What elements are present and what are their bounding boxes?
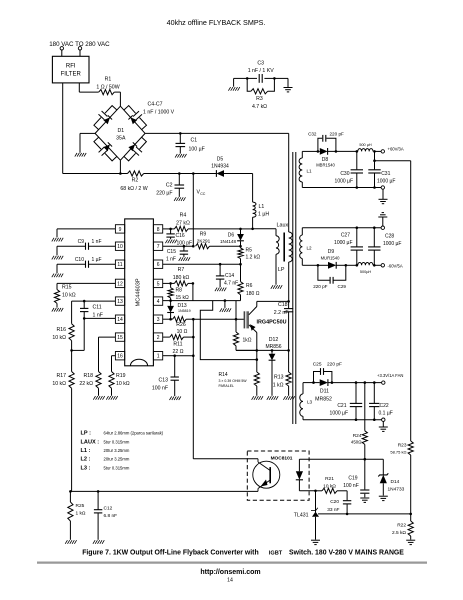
svg-text:C21: C21 — [337, 403, 346, 409]
ground R18 — [93, 396, 104, 400]
label C9 — [78, 239, 102, 245]
AC input terminal 1 — [60, 47, 63, 50]
ground C3 left — [228, 87, 239, 91]
junction pin4 ground — [224, 299, 227, 302]
svg-text:R26: R26 — [176, 322, 186, 328]
svg-text:http://onsemi.com: http://onsemi.com — [200, 569, 260, 576]
svg-text:27 kΩ: 27 kΩ — [176, 221, 190, 227]
diode D12 — [269, 350, 276, 395]
AC input terminal 2 — [78, 47, 81, 50]
wire R7 junction down to pin4 row — [192, 283, 194, 300]
label C27 — [334, 233, 352, 247]
label LP — [278, 267, 285, 273]
svg-text:500 µH: 500 µH — [359, 143, 372, 147]
junction C11 top — [83, 300, 86, 303]
terminal -60V return — [381, 226, 384, 229]
wire bridge bottom to rail — [119, 160, 121, 173]
svg-text:10 kΩ: 10 kΩ — [62, 293, 76, 299]
label R13 — [273, 375, 284, 389]
wire +3.3V top row right — [356, 382, 381, 384]
label R6 — [246, 283, 260, 297]
figure caption — [82, 550, 404, 557]
wire C3 left junction to cap — [247, 77, 257, 79]
label R18 — [79, 373, 93, 387]
ground C10 — [52, 274, 63, 278]
svg-text:1 µH: 1 µH — [258, 212, 269, 218]
junction R5 bottom — [239, 263, 242, 266]
svg-text:10 kΩ: 10 kΩ — [323, 483, 336, 489]
wire +3.3V top row — [303, 382, 314, 384]
svg-text:C28: C28 — [385, 234, 394, 240]
svg-text:+60V/3A: +60V/3A — [388, 147, 404, 152]
opto LED — [296, 459, 316, 491]
svg-text:C2: C2 — [166, 183, 173, 189]
svg-text:1.2 kΩ: 1.2 kΩ — [246, 255, 261, 261]
wire pin 5 to R7 — [163, 282, 175, 284]
svg-text:1: 1 — [157, 354, 160, 360]
svg-text:C4-C7: C4-C7 — [148, 102, 163, 108]
svg-text:D1: D1 — [117, 128, 124, 134]
wire C10 to ground — [57, 264, 85, 273]
svg-text:-60V/5A: -60V/5A — [388, 263, 403, 268]
capacitor C2 — [175, 174, 185, 197]
resistor R22 — [408, 514, 413, 540]
svg-text:TL431: TL431 — [294, 512, 309, 518]
junction emitter 359 — [255, 358, 258, 361]
wire demag jog — [200, 301, 256, 360]
svg-text:2.5 kΩ: 2.5 kΩ — [392, 530, 406, 536]
junction C30 top — [356, 150, 359, 153]
junction R11 right — [192, 336, 195, 339]
ground pin 4 row — [220, 308, 231, 312]
svg-text:L3 :: L3 : — [81, 465, 91, 471]
junction C13 top — [173, 354, 176, 357]
wire Vcc junction to D5 — [193, 173, 216, 175]
svg-text:+3.3V/1A FAN: +3.3V/1A FAN — [377, 373, 403, 378]
junction C27 top — [356, 226, 359, 229]
svg-text:8: 8 — [157, 227, 160, 233]
capacitor C15 — [180, 246, 188, 257]
wire D9 to C27 bottom — [346, 264, 357, 266]
ground bridge left — [75, 153, 86, 157]
label D5 1N4934 — [211, 157, 229, 170]
junction D6 top — [239, 228, 242, 231]
capacitor C29 snubber — [318, 265, 346, 283]
label C1 — [189, 138, 205, 153]
label L1 secondary — [307, 169, 313, 174]
svg-text:C11: C11 — [93, 305, 102, 311]
label 500uH -60V — [360, 270, 372, 274]
label C13 — [152, 378, 168, 392]
inductor 500uH -60V — [358, 263, 373, 266]
svg-text:100 nF: 100 nF — [343, 483, 359, 489]
svg-text:4.7 kΩ: 4.7 kΩ — [252, 104, 267, 110]
label L3 secondary — [307, 400, 313, 405]
label R5 — [246, 248, 261, 261]
svg-text:R25: R25 — [76, 503, 85, 509]
svg-text:100 µF: 100 µF — [189, 147, 205, 153]
svg-text:D6: D6 — [228, 232, 235, 238]
svg-text:1 kΩ: 1 kΩ — [273, 383, 284, 389]
svg-text:C25: C25 — [313, 362, 322, 368]
svg-text:R21: R21 — [325, 476, 334, 482]
svg-text:D11: D11 — [320, 389, 329, 395]
label D13 — [178, 303, 191, 313]
junction C31 bottom — [373, 186, 376, 189]
label 500uH +60V — [359, 143, 372, 147]
wire pin 12 to R15 — [57, 283, 115, 289]
svg-text:10 kΩ: 10 kΩ — [52, 335, 66, 341]
winding L2 secondary — [300, 228, 303, 266]
label 1k gate resistor — [243, 338, 252, 344]
svg-text:22 Ω: 22 Ω — [172, 349, 183, 355]
svg-text:20tur 3.25mm: 20tur 3.25mm — [104, 448, 130, 453]
wire pin 13 left — [72, 301, 116, 324]
svg-text:1 kΩ: 1 kΩ — [76, 511, 86, 517]
ground -60V top — [378, 213, 387, 226]
AC input label 180 VAC TO 280 VAC — [49, 41, 110, 48]
wire pin 6 row — [163, 263, 241, 265]
junction C21 bottom — [355, 418, 358, 421]
wire TL431 ref row — [318, 513, 411, 515]
svg-text:L2: L2 — [307, 246, 313, 251]
label C4-C7 — [143, 102, 175, 116]
svg-text:R16: R16 — [56, 327, 66, 333]
svg-text:220 pF: 220 pF — [327, 362, 342, 368]
svg-text:R3: R3 — [256, 96, 263, 102]
inductor 500uH +60V — [358, 149, 373, 152]
svg-text:D5: D5 — [217, 157, 224, 163]
capacitor C11 — [80, 301, 88, 318]
svg-text:R23: R23 — [398, 443, 407, 449]
svg-text:64tur 2.86mm (2parca sarilarak: 64tur 2.86mm (2parca sarilarak) — [104, 431, 164, 436]
label R2 — [120, 178, 147, 193]
junction L1 bottom — [251, 228, 254, 231]
resistor R10 gate-emitter 1k — [233, 319, 256, 350]
svg-text:1 nF: 1 nF — [93, 313, 103, 319]
label C10 — [75, 257, 102, 263]
svg-text:C29: C29 — [338, 284, 347, 289]
junction R25 — [69, 490, 72, 493]
capacitor C32 snubber — [318, 135, 336, 152]
label R8 — [176, 288, 189, 302]
svg-text:180 kΩ: 180 kΩ — [173, 275, 190, 281]
svg-text:35A: 35A — [116, 136, 126, 142]
wire bridge right vertex DC rail — [145, 132, 289, 134]
op-amp U1 MC44603P controller IC — [115, 219, 162, 366]
svg-text:R17: R17 — [56, 373, 66, 379]
resistor R6 — [238, 264, 243, 300]
terminal +60V — [381, 150, 384, 153]
wire -60V bottom row left — [302, 264, 318, 266]
svg-text:2: 2 — [157, 335, 160, 341]
svg-text:40khz offline FLYBACK SMPS.: 40khz offline FLYBACK SMPS. — [167, 18, 266, 27]
svg-text:MR852: MR852 — [315, 397, 332, 403]
svg-text:R14: R14 — [219, 372, 228, 378]
label C2 — [156, 183, 172, 197]
ground R14 — [252, 396, 263, 400]
capacitor C1 — [176, 133, 186, 153]
wire +3.3V bottom row — [303, 419, 382, 421]
footer separator — [37, 561, 427, 563]
svg-text:10 Ω: 10 Ω — [177, 329, 188, 335]
wire pin2 link vertical — [192, 319, 194, 356]
svg-text:L2 :: L2 : — [81, 457, 91, 463]
label D11 — [315, 389, 332, 403]
junction C29 left — [317, 264, 320, 267]
resistor R4 — [174, 226, 240, 231]
label R9 — [197, 232, 211, 244]
svg-text:C12: C12 — [104, 506, 113, 512]
svg-text:1000 µF: 1000 µF — [383, 241, 401, 247]
svg-text:6: 6 — [157, 262, 160, 268]
resistor R25 — [68, 491, 73, 539]
transformer core lines — [293, 152, 296, 424]
ground TL431 — [311, 540, 320, 544]
svg-text:C16: C16 — [176, 233, 185, 239]
svg-text:16: 16 — [117, 354, 123, 360]
svg-text:6.8 nF: 6.8 nF — [104, 513, 118, 519]
junction C32 right — [335, 150, 338, 153]
wire pin 11 to C10 — [89, 263, 116, 265]
wire pin1 node down to opto collector — [193, 356, 258, 459]
junction R16 bottom — [70, 349, 73, 352]
wire pin 8 to R4 — [163, 228, 175, 230]
capacitor C18 — [284, 301, 293, 350]
wire +60V top row — [302, 150, 318, 152]
svg-text:L1: L1 — [259, 204, 265, 210]
svg-text:1N4148: 1N4148 — [220, 239, 237, 244]
ground R25 — [65, 540, 76, 544]
capacitor C12 — [94, 491, 102, 539]
wire pin 3 row — [163, 318, 173, 320]
label R23 — [390, 443, 406, 455]
resistor R2 — [128, 171, 180, 176]
junction R22 top — [409, 513, 412, 516]
wire pin 2 row — [163, 336, 170, 338]
resistor R21 — [316, 488, 348, 493]
wire pin14 node down — [72, 318, 85, 350]
core bar primary — [283, 233, 285, 262]
label R7 — [173, 267, 190, 281]
label L2 secondary — [307, 246, 313, 251]
label C18 — [274, 302, 289, 316]
svg-text:5tur 0.315mm: 5tur 0.315mm — [104, 439, 130, 444]
wire opto emitter to rail — [70, 490, 258, 492]
svg-text:CC: CC — [200, 192, 206, 196]
svg-text:1 µF: 1 µF — [92, 257, 102, 263]
svg-text:1000 µF: 1000 µF — [334, 240, 352, 246]
label -60V/5A — [388, 263, 403, 268]
resistor R16 — [69, 324, 74, 351]
label C29 — [313, 284, 346, 289]
junction C25 left — [312, 381, 315, 384]
svg-text:R4: R4 — [180, 213, 187, 219]
label TL431 — [294, 512, 309, 518]
junction C28 bottom — [373, 264, 376, 267]
svg-text:13: 13 — [117, 299, 123, 305]
wire C3 cap to right junction — [264, 77, 274, 79]
winding LP — [289, 232, 293, 301]
svg-text:C19: C19 — [348, 476, 357, 482]
wire pin3 to gate — [193, 318, 244, 320]
svg-text:7: 7 — [157, 244, 160, 250]
label R11 — [172, 342, 183, 356]
bridge rectifier D1 — [94, 106, 147, 161]
diode D5 — [216, 170, 224, 177]
wire Vcc rail down to R9 — [192, 174, 194, 247]
resistor R23 — [408, 441, 413, 514]
svg-text:1N4733: 1N4733 — [388, 487, 405, 493]
svg-text:C14: C14 — [225, 273, 234, 279]
capacitor C9 — [86, 243, 89, 250]
capacitor C20 — [343, 491, 351, 514]
ground C14 — [215, 288, 226, 292]
svg-text:1000 µF: 1000 µF — [330, 411, 348, 417]
ground D14 — [379, 496, 388, 500]
label C32 — [308, 131, 344, 136]
junction Vcc pin7 — [192, 245, 195, 248]
svg-text:R18: R18 — [83, 373, 93, 379]
label C3 — [248, 61, 274, 75]
junction Vcc — [192, 172, 195, 175]
label C25 — [313, 362, 342, 368]
winding L1 secondary — [299, 151, 302, 187]
optocoupler MOC8101 box — [247, 451, 309, 500]
svg-text:2K291: 2K291 — [197, 239, 211, 244]
svg-text:R24: R24 — [353, 433, 362, 439]
svg-text:C27: C27 — [341, 233, 350, 239]
junction gate resistor node — [235, 318, 238, 321]
wire pin 10 to C9 — [89, 245, 116, 247]
svg-text:22 kΩ: 22 kΩ — [79, 381, 93, 387]
svg-text:33 nF: 33 nF — [327, 507, 339, 513]
junction R24 top — [364, 381, 367, 384]
label C28 — [383, 234, 401, 248]
junction C20 bottom — [346, 513, 349, 516]
svg-text:Figure 7. 1KW Output Off-Lin: Figure 7. 1KW Output Off-Line Flyback Co… — [82, 550, 259, 557]
svg-text:1kΩ: 1kΩ — [243, 338, 252, 344]
svg-text:220 µF: 220 µF — [156, 191, 172, 197]
svg-text:C15: C15 — [167, 249, 176, 255]
resistor R18 — [96, 372, 101, 396]
ground R15 — [52, 308, 63, 312]
svg-text:58.75 kΩ: 58.75 kΩ — [390, 450, 406, 455]
svg-text:MUR1540: MUR1540 — [321, 256, 341, 261]
ground Laux — [271, 285, 282, 289]
wire pin4 ground stub — [224, 301, 226, 308]
junction emitter 350 — [255, 349, 258, 352]
svg-text:180 Ω: 180 Ω — [246, 291, 260, 297]
junction C27 bottom — [356, 264, 359, 267]
winding L3 secondary — [300, 383, 303, 420]
wire pin 16 left — [112, 356, 116, 372]
svg-text:Laux: Laux — [277, 222, 289, 228]
junction D12 top — [271, 349, 274, 352]
terminal -60V — [381, 264, 384, 267]
zener D14 — [378, 459, 388, 495]
ground C15 — [179, 257, 190, 261]
wire to +60V terminal — [375, 150, 382, 152]
ground +3.3V return — [379, 421, 388, 431]
svg-text:10: 10 — [117, 244, 123, 250]
label C31 — [377, 171, 395, 185]
wire snubber bottom row — [236, 349, 289, 351]
svg-text:100 nF: 100 nF — [152, 386, 168, 392]
svg-text:Switch. 180 V-280 V MAINS RANG: Switch. 180 V-280 V MAINS RANGE — [289, 550, 404, 557]
svg-text:450Ω: 450Ω — [351, 440, 362, 445]
svg-text:220 pF: 220 pF — [330, 131, 344, 136]
svg-text:C18: C18 — [278, 302, 288, 308]
junction C28 top — [373, 226, 376, 229]
junction TL431 node — [314, 490, 317, 493]
label +3.3V/1A FAN — [377, 373, 403, 378]
RFI filter box — [52, 56, 89, 83]
resistor R26 — [173, 317, 194, 322]
terminal +3.3V return — [382, 418, 385, 421]
wire pin 9 to ground — [57, 229, 115, 238]
label D8 — [316, 157, 335, 168]
label R19 — [116, 373, 130, 387]
junction C32 left — [317, 150, 320, 153]
svg-text:220 pF: 220 pF — [313, 284, 327, 289]
svg-text:LP :: LP : — [81, 431, 92, 437]
wire input terminals to RFI filter — [62, 50, 80, 56]
junction C21 top — [355, 381, 358, 384]
label D1 35A — [116, 128, 126, 142]
wire RFI left output down to bottom rail — [63, 83, 128, 174]
wire pin 1 row — [163, 355, 194, 357]
svg-text:10 kΩ: 10 kΩ — [116, 381, 130, 387]
resistor R17 — [69, 350, 74, 491]
ground C13 — [170, 396, 181, 400]
label L1 1uH — [258, 204, 269, 218]
label R24 — [351, 433, 362, 445]
ground C19 — [360, 498, 369, 502]
svg-text:IRG4PC50U: IRG4PC50U — [257, 320, 287, 326]
winding legend table — [81, 431, 164, 472]
junction bridge bottom rail — [119, 172, 122, 175]
junction D13 bottom — [169, 318, 172, 321]
label C11 — [93, 305, 103, 319]
ground R13 — [283, 396, 294, 400]
label +60V/3A — [388, 147, 404, 152]
label R26 — [176, 322, 187, 335]
junction pin3 pin2 link — [192, 318, 195, 321]
svg-text:MBR1540: MBR1540 — [316, 163, 335, 168]
wire +60V feedback tap — [375, 161, 411, 441]
winding Laux — [276, 229, 279, 285]
capacitor C30 — [351, 151, 363, 187]
svg-text:C30: C30 — [340, 171, 349, 177]
junction D13 top — [169, 299, 172, 302]
svg-text:MC44603P: MC44603P — [136, 278, 142, 306]
svg-text:5tur 0.315mm: 5tur 0.315mm — [104, 465, 130, 470]
junction C3 left — [246, 77, 249, 80]
svg-text:D14: D14 — [391, 479, 400, 485]
svg-text:1000 µF: 1000 µF — [335, 179, 353, 185]
label D6 — [220, 232, 237, 244]
svg-text:D9: D9 — [328, 249, 335, 255]
title text — [167, 18, 266, 27]
ground C3 right — [284, 88, 293, 92]
footer url — [200, 569, 260, 576]
svg-text:MR856: MR856 — [265, 344, 281, 350]
ground C1 — [175, 154, 186, 158]
ground +60V return — [379, 189, 388, 204]
svg-text:IGBT: IGBT — [269, 551, 283, 557]
junction C15 — [183, 245, 186, 248]
